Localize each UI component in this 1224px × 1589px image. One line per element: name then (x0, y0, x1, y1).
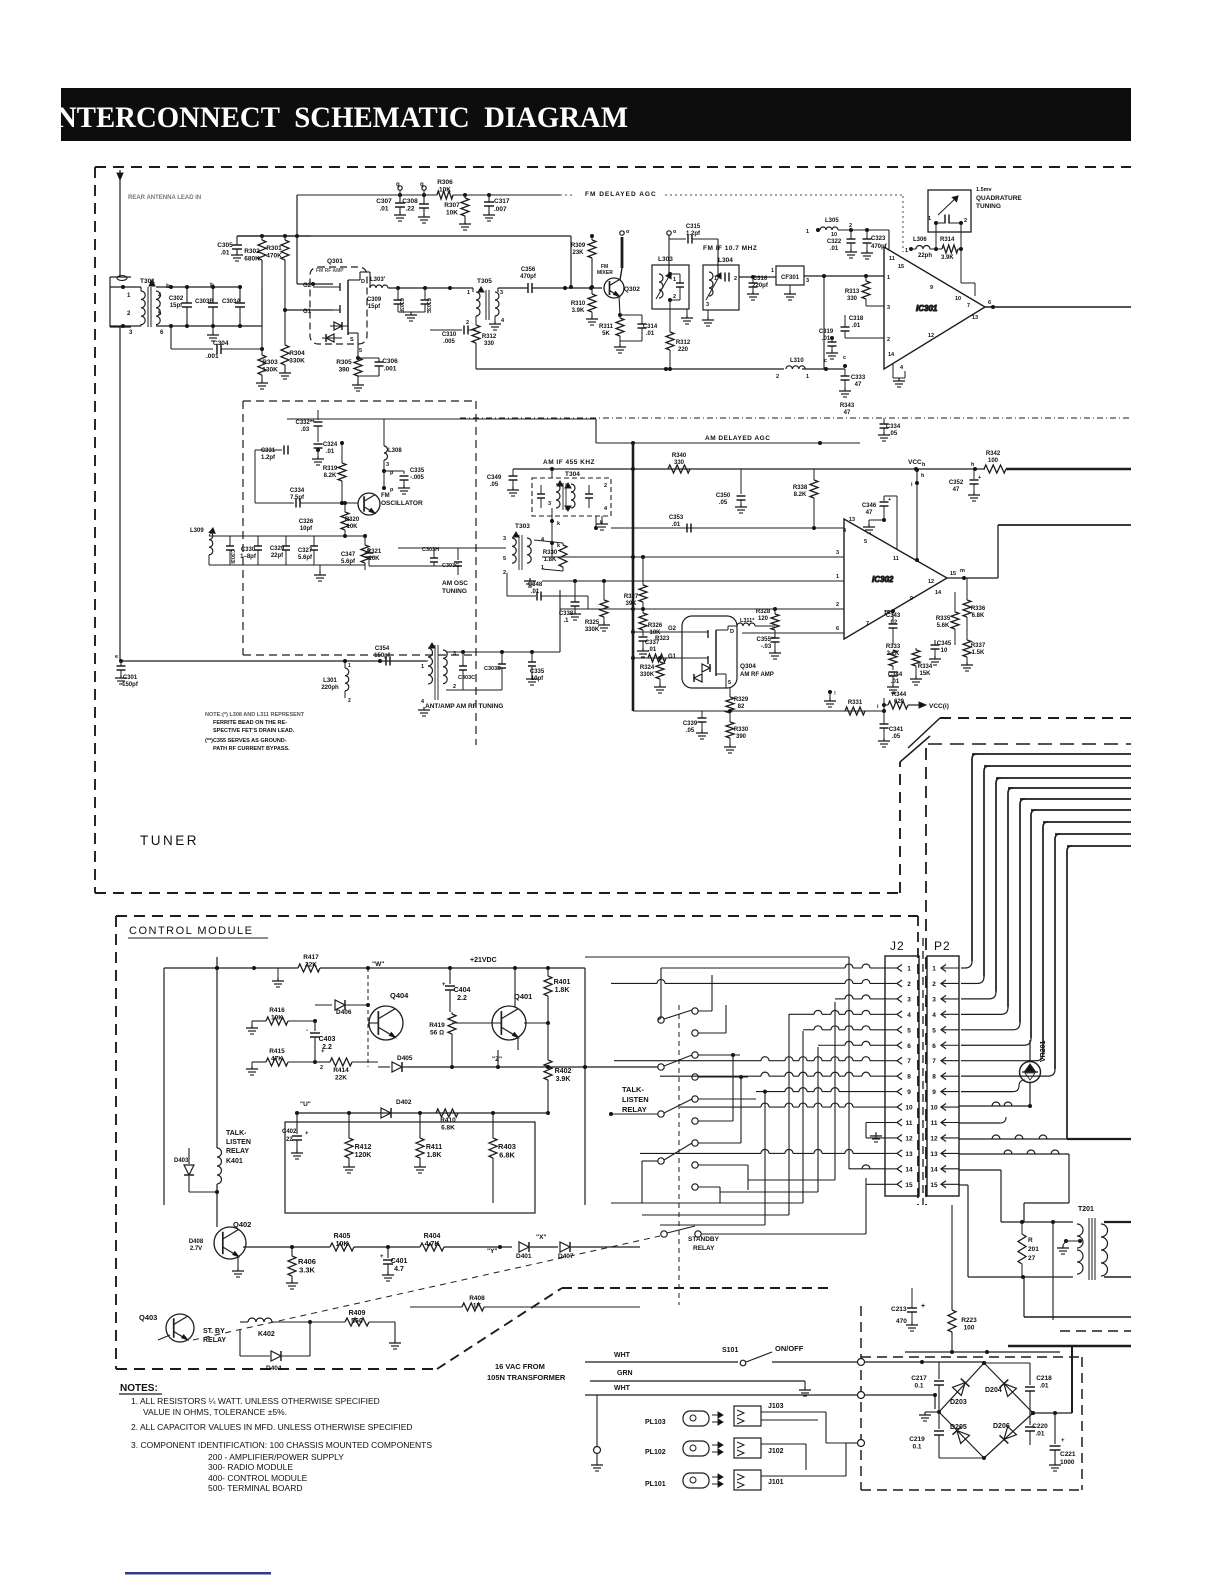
T303 ground (521, 570, 523, 576)
svg-text:C327: C327 (298, 548, 313, 554)
svg-text:150pf: 150pf (122, 682, 139, 688)
tuner module dashed border top (95, 166, 1131, 168)
interconnect dashed separator lower (928, 743, 1131, 745)
svg-text:6.8K: 6.8K (499, 1151, 515, 1160)
wire to AM delayed AGC (596, 442, 633, 444)
radio sub-module dash boundary vertical (475, 401, 477, 745)
svg-text:2: 2 (348, 698, 351, 704)
svg-text:2: 2 (466, 320, 469, 326)
svg-text:1: 1 (348, 663, 351, 669)
interconnect wire 4 horizontal (1008, 787, 1131, 789)
connector P2 body (927, 956, 959, 1196)
svg-text:1: 1 (932, 966, 936, 973)
terminal module dashed border (1060, 1330, 1131, 1332)
wire to J2 pin 9 (763, 1090, 767, 1094)
svg-text:6.8K: 6.8K (441, 1125, 455, 1132)
svg-text:D405: D405 (397, 1055, 413, 1062)
svg-text:8: 8 (907, 1074, 911, 1081)
svg-text:.01: .01 (531, 589, 540, 595)
contact riser 6 (712, 1120, 733, 1122)
svg-text:56 Ω: 56 Ω (430, 1030, 444, 1037)
svg-text:TALK-: TALK- (622, 1085, 644, 1094)
oscillator tank rail bottom (209, 564, 365, 566)
svg-text:L303: L303 (658, 256, 673, 263)
svg-text:9: 9 (907, 1089, 911, 1096)
svg-text:R329: R329 (734, 697, 749, 703)
svg-text:47: 47 (953, 487, 960, 493)
svg-text:22K: 22K (335, 1075, 347, 1082)
svg-text:R331: R331 (848, 700, 863, 706)
wire IC302 pin2 (560, 608, 844, 610)
svg-text:10pf: 10pf (300, 526, 313, 532)
power dashed border left (860, 1306, 862, 1490)
contact riser 3 (712, 1054, 740, 1056)
wire to J2 pin 5 (803, 1029, 814, 1031)
svg-text:R328: R328 (756, 609, 771, 615)
relay arm 4 (664, 1143, 692, 1160)
contact riser 8 (712, 1164, 748, 1166)
bridge rectifier diamond (939, 1363, 984, 1412)
svg-text:FM IF 10.7 MHZ: FM IF 10.7 MHZ (703, 245, 757, 252)
svg-text:2. ALL CAPACITOR VALUES IN MFD: 2. ALL CAPACITOR VALUES IN MFD. UNLESS O… (131, 1422, 413, 1432)
svg-text:.01: .01 (648, 647, 657, 653)
svg-text:STANDBY: STANDBY (688, 1236, 720, 1243)
svg-text:6: 6 (160, 330, 164, 336)
svg-text:R402: R402 (555, 1068, 572, 1075)
Q402 collector wire (235, 1192, 237, 1229)
relay fixed contact 9 (692, 1184, 698, 1190)
contact riser 4 (712, 1076, 748, 1078)
wire FM IF feed (388, 287, 473, 289)
wire IC302 pin13 (611, 527, 844, 529)
svg-text:C352: C352 (949, 480, 964, 486)
svg-text:2: 2 (836, 602, 839, 608)
svg-text:FM RF AMP: FM RF AMP (316, 268, 344, 274)
control module dashed border right (562, 1287, 830, 1289)
contact riser 7 (712, 1142, 741, 1144)
svg-text:2: 2 (932, 981, 936, 988)
svg-text:R314: R314 (940, 237, 955, 243)
svg-text:3: 3 (500, 290, 503, 296)
svg-text:1.8K: 1.8K (555, 987, 570, 994)
svg-text:!: ! (834, 691, 836, 697)
svg-text:13: 13 (972, 315, 978, 321)
svg-text:C303E: C303E (425, 298, 431, 314)
svg-text:27: 27 (1028, 1255, 1036, 1262)
svg-text:C349: C349 (487, 475, 502, 481)
interconnect wire 6 bend into P2 pin 6 (1024, 1038, 1031, 1045)
svg-text:2: 2 (604, 483, 607, 489)
L304 ground (707, 310, 709, 317)
svg-text:.01: .01 (852, 323, 861, 329)
J2 pin 5 (897, 1026, 902, 1033)
svg-text:C308: C308 (402, 198, 418, 205)
wire to J2 pin 6 (818, 1044, 845, 1046)
L310 discriminator row (476, 368, 784, 370)
VCC stub to pin11 (916, 470, 918, 560)
svg-text:.05: .05 (686, 728, 695, 734)
feedthrough circle 3 (858, 1440, 865, 1447)
svg-text:C341: C341 (889, 727, 904, 733)
svg-text:C307: C307 (376, 198, 392, 205)
svg-text:CF301: CF301 (781, 275, 800, 281)
svg-text:C332**: C332** (295, 420, 315, 426)
svg-text:R311: R311 (599, 324, 614, 330)
interconnect wire 2 corner (984, 766, 989, 771)
svg-text:10: 10 (930, 1105, 938, 1112)
svg-text:L303′: L303′ (370, 277, 386, 283)
svg-text:+: + (305, 1131, 309, 1137)
svg-text:D: D (361, 279, 365, 285)
interconnect wire 1 horizontal (972, 753, 1131, 755)
interconnect wire 8 horizontal (1055, 833, 1131, 835)
J2 pin 1 (897, 965, 902, 972)
svg-text:330: 330 (674, 460, 685, 466)
capacitor C303E (424, 288, 426, 300)
svg-text:Q404: Q404 (390, 991, 409, 1000)
relay fixed contact 6 (692, 1118, 698, 1124)
interconnect wire 2 bend into P2 pin 2 (977, 976, 984, 983)
VR201 top stem (1029, 1040, 1031, 1061)
svg-text:R312: R312 (482, 334, 497, 340)
svg-text:15K: 15K (919, 671, 931, 677)
svg-text:D401: D401 (516, 1253, 532, 1260)
svg-text:1: 1 (806, 229, 809, 235)
svg-text:R307: R307 (444, 202, 460, 209)
bus wire vertical 7 (865, 1178, 867, 1196)
svg-text:R312: R312 (676, 340, 691, 346)
svg-text:1.8K: 1.8K (544, 557, 557, 563)
svg-text:D402: D402 (396, 1099, 412, 1106)
Q403 collector wire (190, 1320, 240, 1322)
svg-text:2: 2 (320, 1065, 323, 1071)
svg-text:AM DELAYED AGC: AM DELAYED AGC (705, 435, 770, 442)
svg-text:J2: J2 (890, 939, 905, 953)
svg-text:4: 4 (843, 528, 847, 534)
svg-text:L309: L309 (190, 528, 204, 534)
bus bottom wire 3 (660, 1224, 765, 1226)
svg-text:1.8K: 1.8K (427, 1152, 442, 1159)
svg-text:11: 11 (906, 1120, 913, 1127)
svg-text:MIXER: MIXER (597, 270, 613, 276)
svg-text:10: 10 (941, 648, 948, 654)
relay common wire 3 (611, 1113, 658, 1115)
radio sub-module dash boundary horizontal (243, 400, 476, 402)
wire Q402 top (189, 1191, 217, 1193)
VCC rail (633, 468, 985, 470)
svg-text:0.1: 0.1 (912, 1444, 921, 1451)
svg-text:5: 5 (907, 1027, 911, 1034)
capacitor C303I (229, 536, 231, 546)
tuner module dashed border right jog (899, 762, 901, 893)
power dashed border right (1081, 1357, 1083, 1490)
svg-text:+: + (921, 1303, 925, 1310)
svg-text:k: k (557, 543, 561, 549)
svg-text:300- RADIO MODULE: 300- RADIO MODULE (208, 1462, 293, 1472)
svg-text:1.5mv: 1.5mv (976, 187, 993, 193)
svg-text:330K: 330K (640, 672, 655, 678)
svg-text:R409: R409 (349, 1310, 366, 1317)
svg-text:.05: .05 (889, 431, 898, 437)
J2 pin 8 (897, 1073, 902, 1080)
svg-text:R335: R335 (936, 616, 951, 622)
svg-text:D408: D408 (189, 1239, 204, 1245)
P2 pin15 wire (959, 1184, 968, 1186)
interconnect wire 5 bend into P2 pin 5 (1013, 1023, 1020, 1030)
chassis ground stub (596, 1395, 598, 1446)
relay actuation dash line (678, 1005, 680, 1305)
svg-text:C345: C345 (937, 641, 952, 647)
svg-text:R305: R305 (336, 359, 352, 366)
svg-text:10K: 10K (649, 630, 661, 636)
svg-text:1.2pf: 1.2pf (261, 455, 276, 461)
svg-text:C339: C339 (683, 721, 698, 727)
svg-text:3: 3 (706, 302, 709, 308)
svg-text:J103: J103 (768, 1403, 784, 1410)
interconnect wire 9 vertical right side (1066, 851, 1068, 1139)
wire Q301 source to R305 (357, 348, 359, 358)
svg-text:RELAY: RELAY (203, 1337, 226, 1344)
Q302 emitter network R311 5K (619, 296, 620, 315)
svg-text:R342: R342 (986, 451, 1001, 457)
svg-text:ST. BY: ST. BY (203, 1328, 225, 1335)
ground under C303F (398, 311, 425, 313)
svg-text:C326: C326 (299, 519, 314, 525)
svg-text:+: + (321, 1049, 325, 1055)
svg-text:R: R (1028, 1237, 1033, 1244)
svg-text:7: 7 (932, 1058, 936, 1065)
svg-text:4: 4 (932, 1012, 936, 1019)
AM IF transformer T304 dashed box (532, 478, 611, 516)
wire T304 k down (595, 516, 597, 528)
radio sub-module dash boundary bottom (243, 654, 476, 656)
interconnect wire 4 corner (1008, 788, 1013, 793)
relay common wire 2 (404, 1066, 658, 1068)
svg-text:5: 5 (864, 539, 867, 545)
svg-text:R344: R344 (892, 692, 907, 698)
svg-text:1: 1 (928, 216, 931, 222)
svg-text:5: 5 (158, 311, 162, 317)
wire standby to bus (701, 1233, 866, 1235)
interconnect wire 4 vertical (1007, 793, 1009, 1007)
svg-text:8.2K: 8.2K (324, 473, 337, 479)
svg-text:C334: C334 (290, 488, 305, 494)
wire G2 row (297, 283, 333, 285)
svg-text:3.9K: 3.9K (572, 308, 585, 314)
interconnect wire 1 corner (972, 754, 977, 759)
svg-text:h: h (921, 473, 925, 479)
J103 wires (761, 1411, 826, 1413)
antenna connector (110, 276, 131, 278)
svg-text:R343: R343 (840, 403, 855, 409)
svg-text:3: 3 (386, 462, 389, 468)
svg-text:VR201: VR201 (1040, 1040, 1047, 1062)
svg-text:4: 4 (541, 537, 545, 543)
wire J2 bottom stub (904, 1196, 906, 1288)
FM delayed AGC label (575, 185, 665, 196)
svg-text:1: 1 (673, 277, 676, 283)
svg-text:C356: C356 (521, 267, 536, 273)
svg-text:12: 12 (930, 1135, 938, 1142)
svg-text:S101: S101 (722, 1347, 738, 1354)
svg-text:FM: FM (381, 493, 390, 499)
P2 pin10 wire (959, 1105, 1030, 1107)
svg-text:L308: L308 (388, 448, 402, 454)
svg-text:TALK-: TALK- (226, 1130, 247, 1137)
interconnect wire 9 corner (1067, 846, 1072, 851)
svg-text:1: 1 (836, 574, 839, 580)
J2 pin 4 (897, 1011, 902, 1018)
svg-text:22pf: 22pf (271, 553, 284, 559)
L303 ground (686, 309, 688, 315)
svg-text:C303B: C303B (195, 299, 214, 305)
svg-text:R301: R301 (266, 245, 282, 252)
svg-text:FM DELAYED AGC: FM DELAYED AGC (585, 191, 657, 198)
svg-text:C303A: C303A (222, 299, 241, 305)
svg-text:+: + (1061, 1438, 1065, 1444)
relay fixed contact 1 (692, 1008, 698, 1014)
svg-text:R325: R325 (585, 620, 600, 626)
svg-text:470pf: 470pf (520, 274, 537, 280)
interconnect wire 5 vertical (1019, 804, 1021, 1023)
T305 pin4 ground (494, 316, 496, 321)
wire T304 k down (551, 508, 553, 557)
svg-text:R327: R327 (624, 594, 639, 600)
J2 pin 15 (897, 1181, 902, 1188)
svg-text:"U": "U" (300, 1101, 311, 1108)
svg-text:1.5K: 1.5K (972, 650, 985, 656)
relay common wire 1 (658, 1018, 661, 1020)
svg-text:4: 4 (501, 318, 505, 324)
wire to J2 pin 1 (661, 967, 845, 969)
wire G1 (633, 657, 694, 659)
svg-text:15: 15 (905, 1182, 913, 1189)
svg-text:e: e (115, 654, 118, 660)
svg-text:C354: C354 (375, 646, 390, 652)
+21VDC rail (368, 967, 585, 969)
Q301 gate protection diode 2 (326, 334, 334, 342)
svg-text:RELAY: RELAY (226, 1148, 249, 1155)
relay contact stubs (698, 1010, 712, 1012)
svg-text:1: 1 (467, 290, 470, 296)
svg-text:R334: R334 (918, 664, 933, 670)
svg-text:200 - AMPLIFIER/POWER SUPPLY: 200 - AMPLIFIER/POWER SUPPLY (208, 1452, 344, 1462)
bottom margin line (125, 1572, 271, 1575)
svg-text:i: i (911, 482, 913, 488)
svg-text:C317: C317 (494, 198, 510, 205)
svg-text:2: 2 (503, 570, 506, 576)
wire to J2 pin 2 (611, 982, 657, 984)
svg-text:R414: R414 (333, 1067, 349, 1074)
control module dashed border top (116, 915, 918, 917)
svg-text:TUNER: TUNER (140, 833, 199, 848)
bus bottom wire 5 (748, 1179, 835, 1181)
control module dashed border diagonal (437, 1288, 562, 1369)
svg-text:.01: .01 (220, 250, 229, 257)
svg-text:330K: 330K (585, 627, 600, 633)
svg-text:9: 9 (932, 1089, 936, 1096)
svg-text:22ph: 22ph (918, 253, 932, 259)
VCC rail heavy to edge (1006, 468, 1131, 470)
svg-text:-: - (306, 1028, 308, 1034)
svg-text:"X": "X" (536, 1234, 547, 1241)
wire to module box bottom (1023, 1277, 1025, 1317)
J2 pin 13 (897, 1150, 902, 1157)
Q304 gate diodes (702, 664, 710, 672)
svg-text:OSCILLATOR: OSCILLATOR (381, 500, 423, 507)
relay fixed contact 8 (692, 1162, 698, 1168)
wire quadrature pins down (935, 223, 937, 249)
svg-text:10: 10 (831, 232, 837, 238)
svg-text:1: 1 (421, 664, 424, 670)
svg-text:201: 201 (1028, 1246, 1039, 1253)
wire IC302 pin3 (542, 556, 844, 558)
svg-text:C322: C322 (827, 239, 842, 245)
interconnect wire 3 bend into P2 pin 3 (989, 992, 996, 999)
svg-text:c: c (843, 355, 846, 361)
svg-text:9: 9 (910, 596, 913, 602)
svg-text:R340: R340 (672, 453, 687, 459)
svg-text:15pf: 15pf (368, 304, 381, 310)
svg-text:C324: C324 (323, 442, 338, 448)
svg-text:L306: L306 (913, 237, 927, 243)
bus wire vertical 6 (848, 957, 850, 1169)
svg-text:FERRITE BEAD ON THE RE-: FERRITE BEAD ON THE RE- (213, 720, 287, 726)
wire G2 (633, 631, 694, 633)
svg-text:6: 6 (988, 300, 991, 306)
bus bottom wire 2 (642, 1214, 789, 1216)
svg-text:12: 12 (928, 333, 934, 339)
svg-text:220: 220 (678, 347, 689, 353)
node q1 (398, 186, 402, 190)
svg-text:4: 4 (158, 293, 162, 299)
svg-text:8.2K: 8.2K (794, 492, 807, 498)
power dashed border top (861, 1356, 1082, 1358)
svg-text:.007: .007 (494, 206, 507, 213)
svg-text:C404: C404 (454, 987, 471, 994)
svg-text:10: 10 (955, 296, 961, 302)
svg-text:L304: L304 (718, 257, 733, 264)
svg-text:C213: C213 (891, 1306, 907, 1313)
J2 pin 9 (897, 1088, 902, 1095)
svg-text:C333: C333 (851, 375, 866, 381)
svg-text:5: 5 (728, 680, 731, 686)
left bus vertical (216, 957, 218, 1148)
svg-text:11: 11 (889, 256, 895, 262)
svg-text:C305: C305 (217, 242, 233, 249)
svg-text:3.9K: 3.9K (556, 1076, 571, 1083)
svg-text:D: D (730, 629, 734, 635)
svg-text:1: 1 (806, 374, 809, 380)
contact riser 2 (712, 1032, 726, 1034)
wire to J2 pin 7 (614, 1060, 761, 1062)
Q302 collector wire (620, 268, 622, 280)
wire to J2 pin 8 (660, 1075, 761, 1077)
wire IC302 pin6 (742, 632, 844, 634)
P2 pin14 wire (959, 1169, 1001, 1171)
svg-text:+: + (442, 982, 446, 988)
svg-text:G1: G1 (668, 654, 677, 660)
AGC bus vertical thick (632, 443, 635, 711)
svg-text:47: 47 (844, 410, 851, 416)
AM osc wires (398, 547, 506, 549)
svg-text:1000: 1000 (1060, 1459, 1075, 1466)
interconnect wire 7 horizontal (1043, 821, 1131, 823)
svg-text:IC301: IC301 (916, 304, 938, 313)
svg-text:.01: .01 (822, 336, 831, 342)
svg-text:VALUE IN OHMS, TOLERANCE ±5%.: VALUE IN OHMS, TOLERANCE ±5%. (143, 1407, 287, 1417)
J2 pin 11 (897, 1119, 902, 1126)
